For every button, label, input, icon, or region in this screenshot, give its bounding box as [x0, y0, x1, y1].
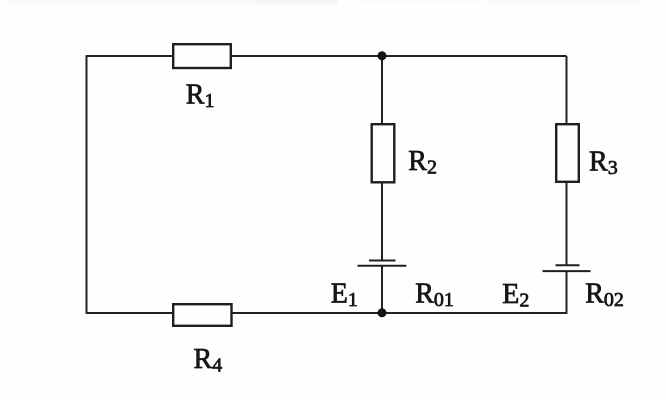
- resistor R1: [173, 44, 231, 68]
- wire: top horizontal from left corner to top-right corner: [87, 55, 567, 57]
- wire: middle branch lower segment (E1 lower plate down to bottom node): [381, 266, 383, 313]
- label E2: [502, 279, 529, 312]
- battery E2 (cell plates): [543, 265, 591, 271]
- label E1: [331, 278, 358, 311]
- label R4: [194, 344, 223, 377]
- label R02: [585, 279, 624, 312]
- wire: bottom horizontal from left corner to bottom-right corner: [87, 312, 567, 314]
- label R1: [186, 79, 215, 112]
- resistor R3: [556, 124, 579, 182]
- wire: right vertical lower segment (E2 lower plate down to bottom wire): [566, 271, 568, 314]
- label R2: [408, 146, 437, 179]
- node: top junction dot: [378, 51, 387, 60]
- resistor R2: [372, 124, 395, 182]
- wire: middle branch upper segment (top node down to E1 upper plate): [381, 56, 383, 261]
- label R01: [415, 279, 454, 312]
- resistor R4: [173, 304, 231, 326]
- label R3: [589, 147, 618, 180]
- wire: left vertical side: [86, 55, 88, 314]
- wire: right vertical upper segment (top corner down to E2 upper plate): [566, 56, 568, 265]
- battery E1 (cell plates): [358, 261, 407, 266]
- faint cropped-text artifact along top edge: [8, 0, 640, 5]
- node: bottom junction dot: [378, 308, 387, 317]
